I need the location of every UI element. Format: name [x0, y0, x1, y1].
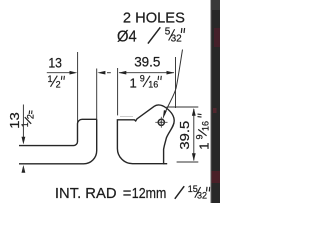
- extension line XC: [117, 68, 119, 115]
- left view: outer contour (bottom face + outer radius + right face): [19, 119, 97, 164]
- v-dim 39.5: bottom extension: [177, 161, 199, 163]
- arrow right (39.5): [167, 71, 175, 75]
- faint inner line (flange surface): [120, 115, 133, 117]
- left view: inner contour (top face + inner bend + end face): [19, 119, 97, 145]
- svg-text:32: 32: [197, 191, 207, 201]
- extension line XB: [96, 69, 98, 120]
- svg-text:16: 16: [148, 79, 158, 89]
- svg-text:9: 9: [140, 73, 145, 83]
- svg-text:INT. RAD: INT. RAD: [55, 186, 117, 202]
- hole circle: [158, 119, 164, 125]
- v-dim 39.5: top extension: [167, 106, 199, 108]
- maroon segment 1: [214, 28, 220, 47]
- svg-text:16: 16: [200, 121, 210, 131]
- v-dim line: [193, 109, 195, 161]
- arrow left (39.5): [119, 71, 127, 75]
- extension line XD: [175, 57, 177, 108]
- big slash: [148, 27, 160, 43]
- svg-text:13: 13: [48, 55, 62, 70]
- v-dim arrow down: [192, 153, 196, 161]
- left 1/2in inch marks: [29, 110, 32, 114]
- svg-text:2: 2: [25, 114, 35, 119]
- right view: outline: [117, 105, 174, 164]
- inch marks after 1 9/16: [158, 76, 161, 80]
- dark page edge strip at right: [210, 0, 211, 203]
- inch marks after 5/32: [181, 28, 184, 33]
- arrow left at XB: [97, 71, 105, 75]
- svg-text:32: 32: [171, 34, 183, 45]
- hole crosshair vertical: [160, 117, 162, 128]
- svg-text:1: 1: [48, 74, 53, 84]
- left 13 dim: rotated fraction 1/2in: [20, 114, 35, 127]
- extension line XA: [77, 52, 79, 123]
- leader arrowhead: [163, 110, 167, 119]
- arrow up: [22, 165, 26, 173]
- rotated 39.5: [177, 121, 192, 150]
- svg-text:2 HOLES: 2 HOLES: [123, 9, 185, 26]
- dim 13 right tail: [107, 72, 111, 74]
- dim line 13 left tail: [47, 72, 71, 74]
- leader line from 5/32 to hole: [164, 50, 182, 116]
- svg-text:1: 1: [130, 75, 137, 90]
- svg-text:Ø4: Ø4: [117, 28, 137, 45]
- svg-text:12mm: 12mm: [132, 186, 167, 202]
- left 13 dim line upper: [22, 105, 24, 140]
- svg-text:39.5: 39.5: [177, 121, 192, 150]
- svg-text:2: 2: [56, 79, 61, 89]
- svg-text:39.5: 39.5: [134, 54, 161, 69]
- inch marks after 1/2: [61, 76, 64, 80]
- maroon dot 2: [213, 108, 217, 113]
- left 13 dim line lower tail: [22, 167, 24, 171]
- big slash bottom: [175, 186, 184, 199]
- dim line 39.5: [119, 72, 174, 74]
- inch marks after 15/32: [207, 187, 210, 192]
- bottom edge stub: [164, 163, 168, 165]
- svg-text:1: 1: [196, 143, 211, 150]
- svg-text:9: 9: [194, 134, 204, 139]
- arrow down: [22, 137, 26, 145]
- svg-text:1: 1: [20, 122, 30, 127]
- maroon segment 3: [212, 171, 221, 183]
- svg-text:=: =: [123, 186, 132, 202]
- v-dim arrow up: [192, 108, 196, 116]
- rotated 1 9/16in: [194, 114, 211, 150]
- arrow right at XA: [70, 71, 78, 75]
- left 13 dim: rotated text 13: [7, 112, 22, 129]
- hole center mark: [160, 121, 162, 123]
- hole crosshair horizontal: [155, 121, 167, 123]
